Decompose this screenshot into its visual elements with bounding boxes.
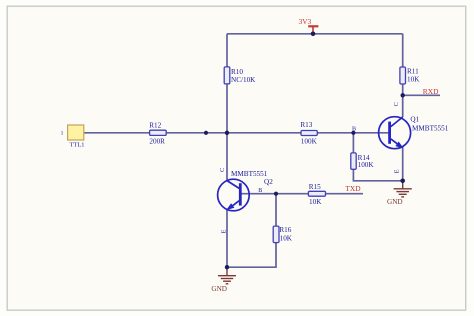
svg-text:MMBT5551: MMBT5551 [231,170,268,178]
svg-text:3V3: 3V3 [299,17,312,26]
wire: left vertical (R10 / Q2 collector net) [226,34,228,181]
resistor R14 labels [358,154,375,169]
svg-text:R11: R11 [407,67,419,75]
svg-text:10K: 10K [407,75,420,83]
wire: Q2 base row to TXD [240,193,363,195]
svg-text:R10: R10 [231,68,243,76]
svg-text:R13: R13 [300,121,312,129]
resistor R11 body [400,67,406,84]
svg-text:1: 1 [61,131,64,137]
resistor R13 body [301,131,317,136]
svg-text:Q2: Q2 [264,178,273,186]
resistor R13 labels [300,121,317,145]
wire: RXD stub [403,94,440,96]
svg-text:R12: R12 [149,121,161,129]
resistor R15 body [308,191,325,196]
resistor R10 body [224,67,230,84]
transistor Q2 labels [231,170,273,186]
transistor Q1 (NPN MMBT5551) [379,117,411,149]
wire: Q2 emitter vertical [226,209,228,267]
svg-text:TXD: TXD [345,184,361,193]
resistor R16 labels [279,226,292,242]
transistor Q1 labels [410,115,448,132]
wire: R16 vertical and bottom run to Q2 emitter [227,194,276,268]
svg-text:MMBT5551: MMBT5551 [412,125,449,133]
connector TTL1 [61,125,85,148]
power port 3V3 [299,17,319,34]
svg-text:C: C [393,102,400,106]
resistor R10 labels [231,68,256,84]
transistor Q2 (NPN MMBT5551, mirrored) [218,179,250,211]
resistor R14 body [351,153,356,169]
junction dot (node B of Q2 / R16 top) [274,192,278,196]
wire: right vertical (R11 / Q1 collector net) [402,34,404,117]
svg-text:10K: 10K [309,198,322,206]
svg-text:GND: GND [387,198,403,206]
wire: Q1 emitter vertical [402,148,404,181]
svg-text:10K: 10K [280,234,293,242]
ground symbol (left, below Q2 emitter) [218,267,236,284]
svg-text:GND: GND [211,285,227,293]
junction dot (Q1 emitter / ground node) [400,179,405,184]
svg-text:200R: 200R [149,138,165,146]
svg-text:E: E [221,230,228,234]
svg-text:C: C [219,168,226,172]
resistor R12 body [150,130,167,135]
svg-text:100K: 100K [358,161,375,169]
junction dot (R12 output) [204,131,208,135]
junction dot (RXD tap) [401,93,405,97]
resistor R11 labels [407,67,420,83]
junction dot (input / left vertical cross) [225,131,229,135]
svg-text:NC/10K: NC/10K [231,76,256,84]
svg-text:R16: R16 [279,226,291,234]
wire: R14 branch from node B down and right to Q1 emitter [353,133,402,181]
svg-text:Q1: Q1 [410,115,419,123]
svg-text:100K: 100K [301,137,318,145]
junction dot (3V3 tap) [311,32,316,37]
junction dot (Q2 emitter / ground node) [225,265,229,269]
junction dot (node B of Q1) [351,131,355,135]
svg-text:RXD: RXD [423,87,439,96]
resistor R16 body [273,226,279,243]
resistor R15 labels [309,183,322,206]
resistor R12 labels [149,121,165,145]
ground symbol (right, below Q1 emitter) [394,181,412,197]
wire: TTL input row to Q1 base [84,132,389,134]
wire: 3V3 top bus [227,33,403,35]
svg-text:R15: R15 [309,183,321,191]
svg-text:TTL1: TTL1 [70,141,85,148]
svg-text:E: E [394,169,401,173]
svg-text:B: B [258,188,262,194]
